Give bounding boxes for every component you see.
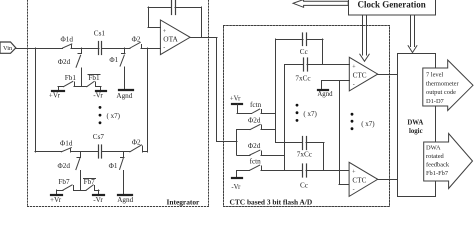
svg-text:Φ2: Φ2 [132, 35, 141, 43]
svg-text:output code: output code [426, 89, 456, 96]
ground Agnd top branch [116, 90, 133, 100]
switch phi2 top [130, 35, 141, 48]
wire CTC top output to DWA [378, 74, 398, 76]
svg-text:Agnd: Agnd [117, 196, 133, 204]
svg-text:( x7): ( x7) [361, 120, 375, 128]
capacitor 7xCc lower [276, 137, 325, 171]
capacitor integrator feedback [172, 1, 176, 15]
svg-text:CTC based 3 bit flash A/D: CTC based 3 bit flash A/D [230, 197, 313, 206]
svg-text:Cs7: Cs7 [93, 133, 105, 141]
capacitor Cc top [276, 33, 324, 64]
switch fctn top [237, 101, 276, 114]
svg-text:Clock Generation: Clock Generation [358, 0, 426, 9]
capacitor 7xCc top [285, 58, 350, 82]
block arrow DWA rotated feedback Fb1-Fb7 [424, 134, 473, 189]
switch phi1d top [61, 36, 74, 48]
wire phi1d bottom to Cs7 [71, 151, 99, 153]
svg-text:Φ2: Φ2 [132, 138, 141, 146]
svg-text:Φ2d: Φ2d [248, 116, 261, 124]
integrator dashed border bottom [28, 206, 209, 208]
wire junction vertical joining both branches [147, 48, 149, 152]
svg-text:7xCc: 7xCc [295, 74, 310, 82]
comparator CTC top [349, 57, 377, 91]
svg-text:7 level: 7 level [426, 72, 443, 79]
integrator dashed border right [208, 0, 210, 207]
svg-text:fctn: fctn [250, 101, 262, 109]
wire Vin to switch phi1d top [16, 48, 63, 50]
switch Fb1-bar with -Vr source [87, 74, 106, 99]
wire phi1d to Cs1 [71, 48, 99, 50]
ground Agnd shared A/D [317, 81, 349, 99]
svg-text:logic: logic [409, 128, 423, 135]
switch phi1d bottom [60, 140, 73, 153]
svg-text:Cs1: Cs1 [94, 29, 106, 37]
integrator dashed border left [27, 0, 29, 207]
node rail B (bottom switches / 7xCc top / Cc lower) [284, 65, 286, 171]
wire branch vertical to bottom sampling branch [35, 48, 37, 152]
wire feedback into OTA upper input [148, 7, 172, 28]
wire feedback cap to output [175, 7, 202, 38]
dots repetition x7 right [351, 113, 376, 130]
wire phi2 bottom to junction [143, 151, 148, 153]
svg-text:OTA: OTA [163, 35, 178, 44]
svg-text:Fb1: Fb1 [65, 74, 77, 82]
svg-text:+Vr: +Vr [50, 196, 62, 204]
block arrow output 7 level thermometer code D1-D7 [423, 60, 473, 111]
svg-text:Φ2d: Φ2d [58, 162, 71, 170]
node bar Fb1 network [74, 86, 87, 88]
svg-text:Fb1-Fb7: Fb1-Fb7 [426, 170, 449, 177]
svg-text:-: - [353, 82, 355, 88]
op-amp OTA [160, 20, 190, 55]
svg-text:( x7): ( x7) [303, 110, 317, 118]
wire Cs7 to phi2 bottom [102, 151, 131, 153]
wire OTA output [190, 38, 237, 156]
wire Cs1 to switch phi2 top [102, 48, 130, 50]
switch phi2 bottom [130, 138, 143, 152]
clock arrow down to DWA logic [408, 16, 417, 53]
svg-text:Φ1d: Φ1d [61, 36, 74, 44]
switch phi2d lower A/D [237, 142, 285, 155]
+Vr reference top of A/D [230, 95, 242, 113]
capacitor Cs1 [94, 29, 106, 54]
svg-text:CTC: CTC [352, 176, 366, 184]
capacitor Cs7 [93, 133, 105, 158]
svg-text:DWA: DWA [407, 119, 423, 126]
svg-text:Vin: Vin [3, 45, 13, 52]
DWA logic box [398, 54, 436, 197]
svg-text:7xCc: 7xCc [297, 150, 312, 158]
capacitor Cc lower [285, 164, 350, 189]
svg-text:( x7): ( x7) [107, 112, 121, 120]
svg-text:-Vr: -Vr [93, 196, 103, 204]
svg-text:Φ1d: Φ1d [60, 140, 73, 148]
switch Fb7-bar with -Vr source [84, 178, 105, 204]
bottom sampling branch wire [35, 151, 62, 153]
svg-text:-Vr: -Vr [231, 184, 241, 191]
svg-text:Fb7: Fb7 [58, 178, 70, 186]
dots repetition x7 middle [296, 104, 318, 122]
ground Agnd bottom branch [117, 195, 133, 204]
clock generation box [349, 0, 436, 15]
svg-text:Φ1: Φ1 [109, 162, 118, 170]
svg-text:Cc: Cc [300, 181, 308, 189]
node rail A (top switches / Cc top / 7xCc lower) [275, 39, 277, 143]
switch phi2d upper A/D [237, 116, 276, 129]
svg-text:Φ2d: Φ2d [58, 58, 71, 66]
svg-text:fctn: fctn [250, 157, 262, 165]
switch phi1 bottom (vertical) to Agnd [109, 152, 124, 194]
dots repetition x7 integrator [99, 106, 121, 124]
svg-text:-Vr: -Vr [93, 92, 103, 100]
svg-text:Agnd: Agnd [116, 92, 132, 100]
svg-text:D1-D7: D1-D7 [426, 98, 445, 105]
wire CTC bottom output to DWA [378, 179, 398, 181]
switch phi1 top (vertical) to Agnd [109, 48, 125, 90]
svg-text:feedback: feedback [426, 162, 450, 169]
svg-text:+: + [352, 64, 356, 70]
svg-text:rotated: rotated [426, 153, 445, 160]
flash A/D dashed border box [224, 26, 390, 207]
node Vin input connector [0, 42, 16, 53]
wire phi2 to OTA inverting input [141, 48, 161, 50]
svg-text:Integrator: Integrator [167, 197, 201, 206]
svg-text:Φ2d: Φ2d [248, 142, 261, 150]
svg-text:-: - [353, 187, 355, 193]
svg-text:DWA: DWA [426, 145, 441, 152]
svg-text:CTC: CTC [353, 71, 367, 79]
switch Fb7 with +Vr source [50, 178, 74, 204]
svg-text:+Vr: +Vr [49, 92, 61, 100]
switch phi2d bottom (vertical) [58, 152, 81, 190]
switch Fb1 with +Vr source [49, 74, 77, 99]
comparator CTC bottom [349, 162, 378, 196]
svg-text:thermometer: thermometer [426, 80, 460, 87]
block arrow from clock generation pointing left [293, 0, 348, 7]
switch phi2d top (vertical) [58, 48, 82, 87]
svg-text:+: + [352, 169, 356, 175]
svg-text:Agnd: Agnd [317, 91, 333, 98]
wire Agnd link to lower comparator minus input [339, 81, 349, 185]
svg-text:+Vr: +Vr [230, 95, 241, 102]
svg-text:-: - [163, 45, 165, 51]
svg-text:Φ1: Φ1 [109, 56, 118, 64]
switch fctn bottom with -Vr [231, 157, 284, 190]
clock arrow down to CTC comparators [360, 16, 369, 62]
svg-text:Cc: Cc [300, 48, 308, 56]
node bar Fb7 network [74, 190, 87, 192]
